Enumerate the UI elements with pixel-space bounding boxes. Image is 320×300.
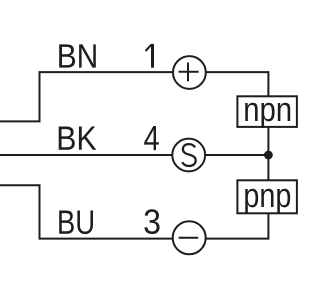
junction node — [264, 151, 273, 160]
label npn — [245, 103, 290, 128]
label BK — [59, 127, 97, 150]
minus terminal circle — [173, 221, 206, 254]
wire npn box to pnp box (vertical bus) — [267, 127, 269, 180]
wire S terminal to junction — [205, 154, 268, 156]
plus sign — [179, 63, 199, 82]
wire BU feed (left edge, riser down to BU row, to minus terminal) — [0, 185, 173, 238]
label BU — [59, 211, 93, 235]
wire BN feed (left edge, riser up to BN row, to plus terminal) — [0, 72, 173, 121]
wire plus terminal to bus, down to npn box — [206, 72, 269, 96]
pnp box — [237, 180, 297, 213]
pin number 3 — [144, 209, 159, 234]
letter S — [182, 144, 196, 166]
pin number 4 — [144, 126, 159, 150]
S output terminal circle — [172, 139, 205, 172]
minus sign — [179, 237, 199, 239]
label BN — [59, 44, 96, 67]
wire BK (left edge to S terminal) — [0, 154, 172, 156]
npn box — [237, 96, 297, 127]
wire minus terminal to bus, up to pnp box — [206, 213, 269, 238]
pin number 1 — [146, 44, 153, 68]
label pnp — [245, 189, 290, 214]
plus terminal circle — [173, 56, 206, 89]
